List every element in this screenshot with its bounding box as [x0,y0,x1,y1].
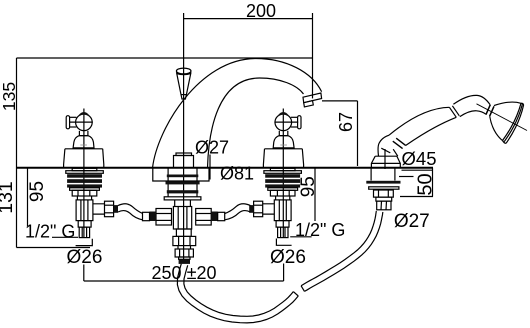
tee bottom coupler 1 [173,229,196,246]
bottom tail coupling [78,221,91,228]
tee hose nut (dark) [179,259,190,264]
left connector hose [118,204,143,220]
hand shower neck bottom [460,111,486,117]
side outlet hex nut [105,201,114,217]
svg-text:Ø45: Ø45 [402,148,437,169]
right connector hose [225,204,251,220]
tee left hose band (dark) [150,212,157,222]
shower washer plate [369,187,399,189]
shower washer band (dark) [366,181,400,184]
svg-text:200: 200 [246,1,276,21]
shower below-deck shank [371,168,395,181]
right valve (mirrored copy of left valve) [249,109,303,238]
spout inner curve [208,78,304,168]
central stack side lines [168,168,197,197]
spout flange O81 [153,168,209,181]
spout outer curve [153,59,322,169]
dimension 95 left line [27,168,29,226]
svg-text:Ø26: Ø26 [67,247,103,268]
dimension 250 +-20 line [84,264,284,282]
hand shower axis centerline [477,104,528,131]
valve body neck [77,196,91,200]
central washer band 2 (dark) [166,181,200,184]
handle left arm [69,117,76,127]
valve body [76,200,93,221]
mounting hex nut [72,190,97,196]
svg-text:95: 95 [27,181,48,202]
tee right port hex nut [196,209,212,226]
hand shower neck top [453,95,490,104]
valve centerline [83,109,85,238]
central tee shank [175,200,191,207]
washer band 1 (dark) [67,174,102,178]
dimension 1/2 G left bracket [52,237,92,245]
svg-text:Ø27: Ø27 [394,211,430,232]
shower tail [377,201,391,210]
tee left ferrule [143,212,150,220]
handle arm end cap [66,116,69,129]
shower hose inner line (break to shower tail) [301,211,376,286]
svg-text:95: 95 [298,176,319,197]
shower holder centerline [384,149,386,169]
shower hose outer line (break to shower tail) [305,212,383,291]
valve neck [79,131,88,136]
shower holder bell [371,156,400,167]
spout nozzle tip [304,101,314,107]
spout diverter lever [176,68,191,99]
hand shower head bell bottom edge [490,116,503,140]
valve escutcheon [64,149,104,168]
deck line [17,167,434,169]
svg-text:135: 135 [0,82,19,111]
tee bottom connector line [178,246,191,249]
dimension 200 line [184,13,313,168]
dimension O27 spout leader [209,155,211,180]
central washer plate [164,197,201,200]
hand shower handle bottom edge [406,117,457,145]
washer band 2 (dark) [67,179,102,183]
hand shower cone end [378,135,398,156]
central washer band 3 (dark) [167,190,199,193]
tee bottom coupler 2 [175,249,193,257]
hand shower head rim bottom corner [503,141,507,144]
valve bonnet [73,136,94,148]
hand shower waist bands [393,138,406,148]
below-deck plate 1 [72,168,97,170]
svg-text:1/2" G: 1/2" G [25,222,75,242]
below-deck plate 3 [70,188,100,191]
dimension 50 line [399,168,433,197]
hand shower head rim band line 2 [504,104,522,142]
svg-text:131: 131 [0,181,17,214]
bottom reference line 131 [17,247,91,249]
svg-text:Ø81: Ø81 [220,164,254,184]
central tee body [173,207,191,230]
handle top cap (dark) [79,112,90,116]
hand shower head rim band line 1 [503,103,522,140]
svg-text:Ø26: Ø26 [270,247,306,268]
tee right hose band (dark) [211,212,218,222]
bonnet mark [80,144,87,146]
dimension 67 line [322,101,358,166]
dimension 95 right line [314,168,316,222]
handle ball [76,114,93,131]
spout nozzle [303,93,322,103]
hand shower handle top edge [389,107,449,135]
left valve group [64,109,118,238]
hand shower head rim top corner [521,103,524,105]
shower hose break cap (lower segment end) [293,292,298,296]
shower mounting nut [374,190,394,197]
shower hose inner line (tee to break) [184,265,293,316]
hand shower head rim band line 3 [506,105,523,143]
hand shower head collar bands [486,105,494,117]
tee left port hex nut [156,209,172,226]
shower hose outer line (tee to break) [177,264,298,323]
central washer band 1 (dark) [167,175,199,178]
dimension 1/2 G right bracket [276,237,311,246]
central tee centerline [183,168,185,263]
top reference line (spout height) [17,57,314,59]
bottom tail [79,227,89,238]
shower hose break cap (upper segment start) [301,286,304,292]
washer band 3 (dark) [67,184,102,187]
handle ball centerline [69,121,93,123]
svg-text:Ø27: Ø27 [195,138,229,158]
tee hose nut neck [179,257,190,259]
hand shower cone end cap line [381,148,390,153]
hand shower upper collar bands [449,106,459,118]
spout base cap [174,153,194,168]
tee right ferrule [218,212,225,220]
side outlet stub [93,204,105,214]
svg-text:67: 67 [336,112,356,132]
left vertical dimension line 135/131 [16,58,18,248]
shower tail collar [376,197,392,201]
below-deck plate 2 [66,171,104,174]
svg-text:50: 50 [415,173,437,195]
hand shower head bell top edge [494,102,521,106]
hose stub (dark) [114,205,118,213]
